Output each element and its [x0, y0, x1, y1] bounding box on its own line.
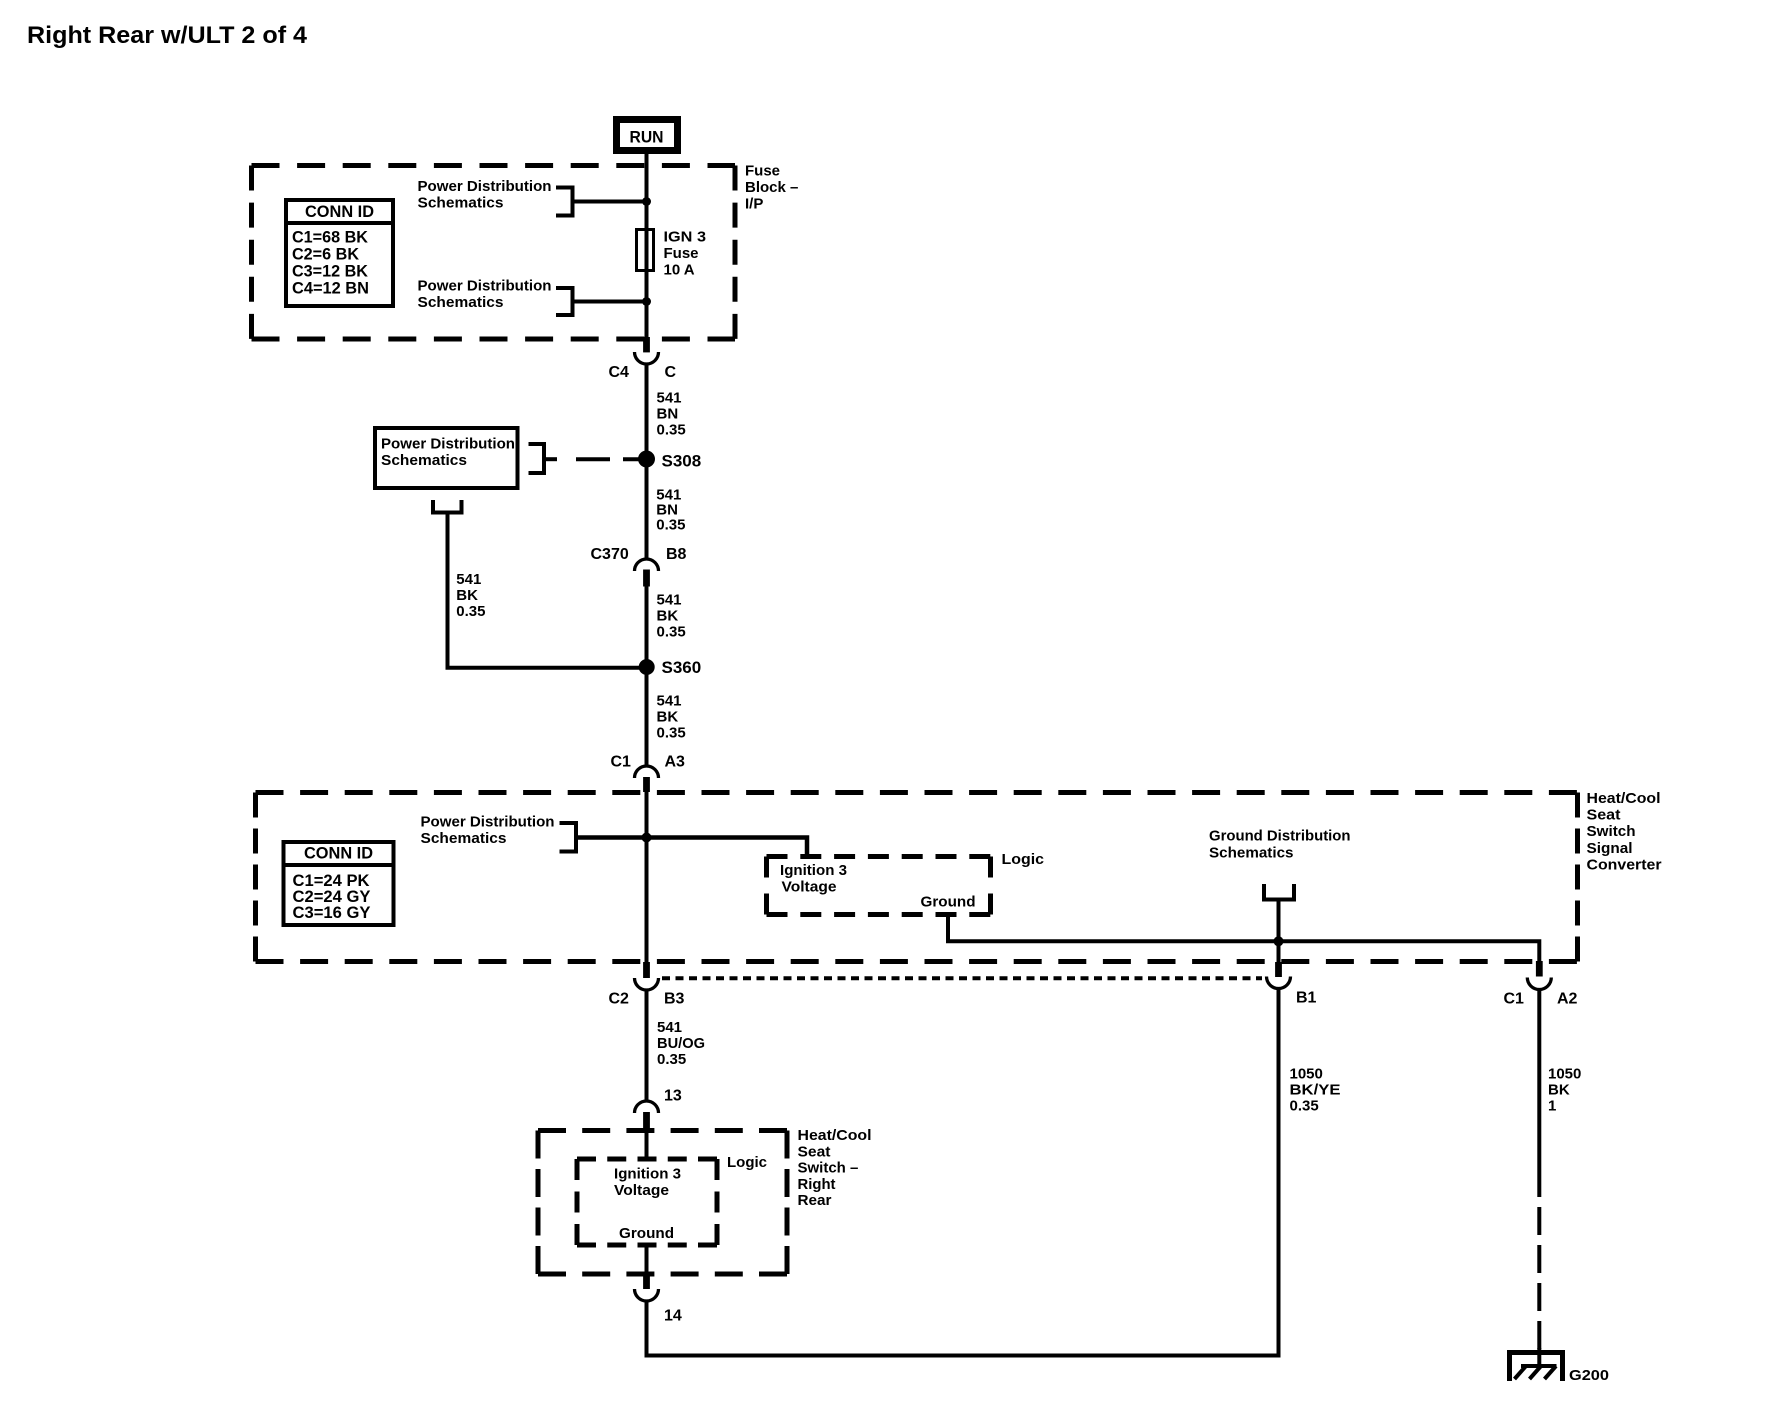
svg-text:Ignition 3: Ignition 3	[614, 1166, 681, 1183]
connector B1	[1267, 962, 1317, 1007]
dotted harness line B3 to B1	[662, 976, 1262, 980]
svg-text:A3: A3	[665, 754, 686, 771]
power distribution schematics reference box (at S308)	[375, 428, 544, 488]
CONN ID table (signal converter)	[284, 842, 394, 925]
svg-text:0.35: 0.35	[656, 517, 685, 534]
svg-text:Heat/Cool: Heat/Cool	[798, 1127, 872, 1144]
heat/cool seat switch signal converter label	[1587, 790, 1662, 873]
logic block texts (converter)	[780, 862, 976, 911]
svg-text:C1: C1	[611, 754, 632, 771]
svg-text:C3=16 GY: C3=16 GY	[293, 903, 372, 922]
svg-text:Right Rear w/ULT 2 of 4: Right Rear w/ULT 2 of 4	[27, 22, 308, 49]
ground distribution schematics reference	[1209, 828, 1351, 900]
fuse block I/P dashed box	[252, 166, 736, 340]
svg-text:C4=12 BN: C4=12 BN	[292, 279, 369, 298]
wire ground out of logic block	[645, 1245, 649, 1277]
wire 541 BN (C to S308)	[645, 363, 649, 560]
logic block texts (switch)	[614, 1166, 681, 1243]
svg-text:1: 1	[1548, 1098, 1556, 1115]
svg-text:IGN 3: IGN 3	[664, 229, 707, 246]
svg-text:Power Distribution: Power Distribution	[421, 814, 555, 831]
heat/cool seat switch signal converter dashed box	[256, 793, 1578, 962]
connector C4/C	[609, 337, 677, 381]
svg-text:0.35: 0.35	[657, 1051, 686, 1068]
wire ground distribution reference stem	[1277, 900, 1281, 942]
svg-text:Converter: Converter	[1587, 856, 1662, 873]
svg-text:I/P: I/P	[745, 196, 763, 213]
logic block (switch) dashed box	[577, 1159, 717, 1245]
svg-text:1050: 1050	[1290, 1066, 1323, 1083]
svg-text:Schematics: Schematics	[418, 195, 504, 212]
connector pin 13	[635, 1088, 682, 1133]
svg-text:Fuse: Fuse	[745, 163, 780, 180]
connector C370/B8	[591, 546, 687, 587]
svg-text:RUN: RUN	[630, 128, 664, 147]
svg-text:BU/OG: BU/OG	[657, 1035, 705, 1052]
svg-text:Voltage: Voltage	[614, 1182, 669, 1199]
connector C1/A3	[611, 754, 686, 793]
junction at fuse output (lower)	[642, 297, 651, 306]
svg-text:Voltage: Voltage	[782, 879, 837, 896]
svg-text:Schematics: Schematics	[381, 452, 467, 469]
svg-text:10 A: 10 A	[664, 262, 695, 279]
svg-text:Ground Distribution: Ground Distribution	[1209, 828, 1351, 845]
svg-text:BK: BK	[1548, 1082, 1570, 1099]
label 541 BK 0.35 (branch)	[456, 571, 485, 620]
svg-text:Logic: Logic	[727, 1154, 767, 1171]
wire A2 to ground (dashed part)	[1537, 1169, 1541, 1349]
svg-text:B3: B3	[664, 991, 685, 1008]
svg-text:BK/YE: BK/YE	[1290, 1082, 1341, 1099]
svg-text:0.35: 0.35	[657, 725, 686, 742]
wire pin 13 into switch	[645, 1131, 649, 1160]
svg-text:Power Distribution: Power Distribution	[418, 178, 552, 195]
svg-text:Schematics: Schematics	[418, 294, 504, 311]
svg-text:C1: C1	[1504, 991, 1525, 1008]
heat/cool seat switch right rear label	[798, 1127, 872, 1209]
label 1050 BK/YE 0.35	[1290, 1066, 1341, 1115]
svg-text:Logic: Logic	[1002, 851, 1045, 868]
label 541 BU/OG 0.35	[657, 1019, 705, 1068]
splice S308	[638, 451, 701, 471]
junction on ground wire at B1	[1274, 936, 1284, 946]
ground wire inside converter	[948, 915, 1539, 963]
svg-text:B1: B1	[1296, 990, 1317, 1007]
svg-text:Signal: Signal	[1587, 840, 1633, 857]
wire A3 into converter box	[645, 791, 649, 962]
svg-text:C370: C370	[591, 546, 629, 563]
CONN ID table (fuse block)	[286, 200, 393, 306]
svg-text:Power Distribution: Power Distribution	[381, 436, 515, 453]
label 541 BK 0.35 (above S360)	[657, 592, 686, 641]
svg-text:G200: G200	[1569, 1367, 1609, 1384]
svg-text:Power Distribution: Power Distribution	[418, 278, 552, 295]
svg-text:CONN ID: CONN ID	[305, 202, 374, 221]
wire pin 14 to B1 (return path)	[647, 988, 1279, 1356]
svg-text:BK: BK	[657, 608, 679, 625]
svg-text:Ground: Ground	[619, 1225, 674, 1242]
fuse IGN 3 10 A	[637, 229, 707, 279]
svg-text:S360: S360	[662, 658, 702, 677]
label 541 BN 0.35 (below S308)	[656, 487, 685, 534]
svg-text:B8: B8	[666, 546, 687, 563]
svg-text:Right: Right	[798, 1176, 836, 1193]
svg-text:13: 13	[664, 1088, 682, 1105]
power distribution schematics reference (in converter)	[421, 814, 577, 852]
bracket under reference box (branch to S360)	[433, 500, 462, 513]
junction at IGN3 feed (upper)	[642, 197, 651, 206]
wire 541 BU/OG (B3 to switch)	[645, 989, 649, 1103]
wire RUN to fuse block	[645, 154, 649, 168]
svg-text:0.35: 0.35	[1290, 1098, 1319, 1115]
svg-text:BK: BK	[657, 709, 679, 726]
svg-text:C: C	[665, 364, 677, 381]
svg-text:14: 14	[664, 1308, 682, 1325]
svg-text:541: 541	[657, 1019, 682, 1036]
wire upper reference to IGN3 feed	[573, 200, 647, 204]
wire A2 to ground (solid part)	[1537, 989, 1541, 1169]
svg-text:541: 541	[456, 571, 481, 588]
svg-text:C2: C2	[609, 991, 630, 1008]
wire through fuse block	[645, 166, 649, 338]
junction on main wire (converter)	[642, 833, 652, 843]
wire lower reference to fuse output	[573, 300, 647, 304]
svg-text:541: 541	[657, 390, 682, 407]
dashed wire reference to S308	[544, 457, 646, 461]
logic block (converter) dashed box	[767, 857, 991, 915]
svg-text:Rear: Rear	[798, 1192, 832, 1209]
svg-text:Block –: Block –	[745, 179, 798, 196]
svg-text:541: 541	[657, 693, 682, 710]
svg-text:1050: 1050	[1548, 1066, 1581, 1083]
svg-text:S308: S308	[662, 452, 702, 471]
connector pin 14	[635, 1276, 682, 1325]
svg-text:Switch: Switch	[1587, 823, 1636, 840]
svg-text:A2: A2	[1557, 991, 1578, 1008]
svg-text:0.35: 0.35	[657, 422, 686, 439]
branch wire to S360	[448, 513, 647, 668]
svg-text:541: 541	[657, 592, 682, 609]
connector C2/B3	[609, 962, 685, 1008]
svg-text:Fuse: Fuse	[664, 245, 699, 262]
svg-text:CONN ID: CONN ID	[304, 844, 373, 863]
label 541 BK 0.35 (below S360)	[657, 693, 686, 742]
wire B1 drop inside box	[1277, 941, 1281, 962]
power distribution schematics reference (upper)	[418, 178, 573, 216]
fuse block I/P label	[745, 163, 798, 213]
label 541 BN 0.35 (upper)	[657, 390, 686, 439]
ground G200	[1507, 1348, 1609, 1384]
svg-text:0.35: 0.35	[456, 603, 485, 620]
svg-text:Heat/Cool: Heat/Cool	[1587, 790, 1661, 807]
svg-text:0.35: 0.35	[657, 624, 686, 641]
ignition switch RUN terminal box	[617, 120, 678, 151]
label 1050 BK 1	[1548, 1066, 1581, 1115]
svg-text:Seat: Seat	[1587, 807, 1621, 824]
svg-text:Schematics: Schematics	[421, 830, 507, 847]
svg-text:Ignition 3: Ignition 3	[780, 862, 847, 879]
svg-text:BN: BN	[657, 406, 679, 423]
splice S360	[639, 658, 702, 677]
heat/cool seat switch right rear dashed box	[538, 1131, 787, 1275]
power distribution schematics reference (lower)	[418, 278, 573, 316]
connector C1/A2	[1504, 961, 1578, 1008]
svg-text:Schematics: Schematics	[1209, 845, 1294, 862]
svg-text:Ground: Ground	[921, 894, 976, 911]
svg-text:BK: BK	[456, 587, 478, 604]
svg-text:C4: C4	[609, 364, 630, 381]
svg-text:Seat: Seat	[798, 1143, 831, 1160]
wire 541 BK (B8 to S360)	[645, 586, 649, 767]
wire reference to ignition 3 voltage input	[576, 838, 807, 859]
svg-text:Switch –: Switch –	[798, 1160, 859, 1177]
